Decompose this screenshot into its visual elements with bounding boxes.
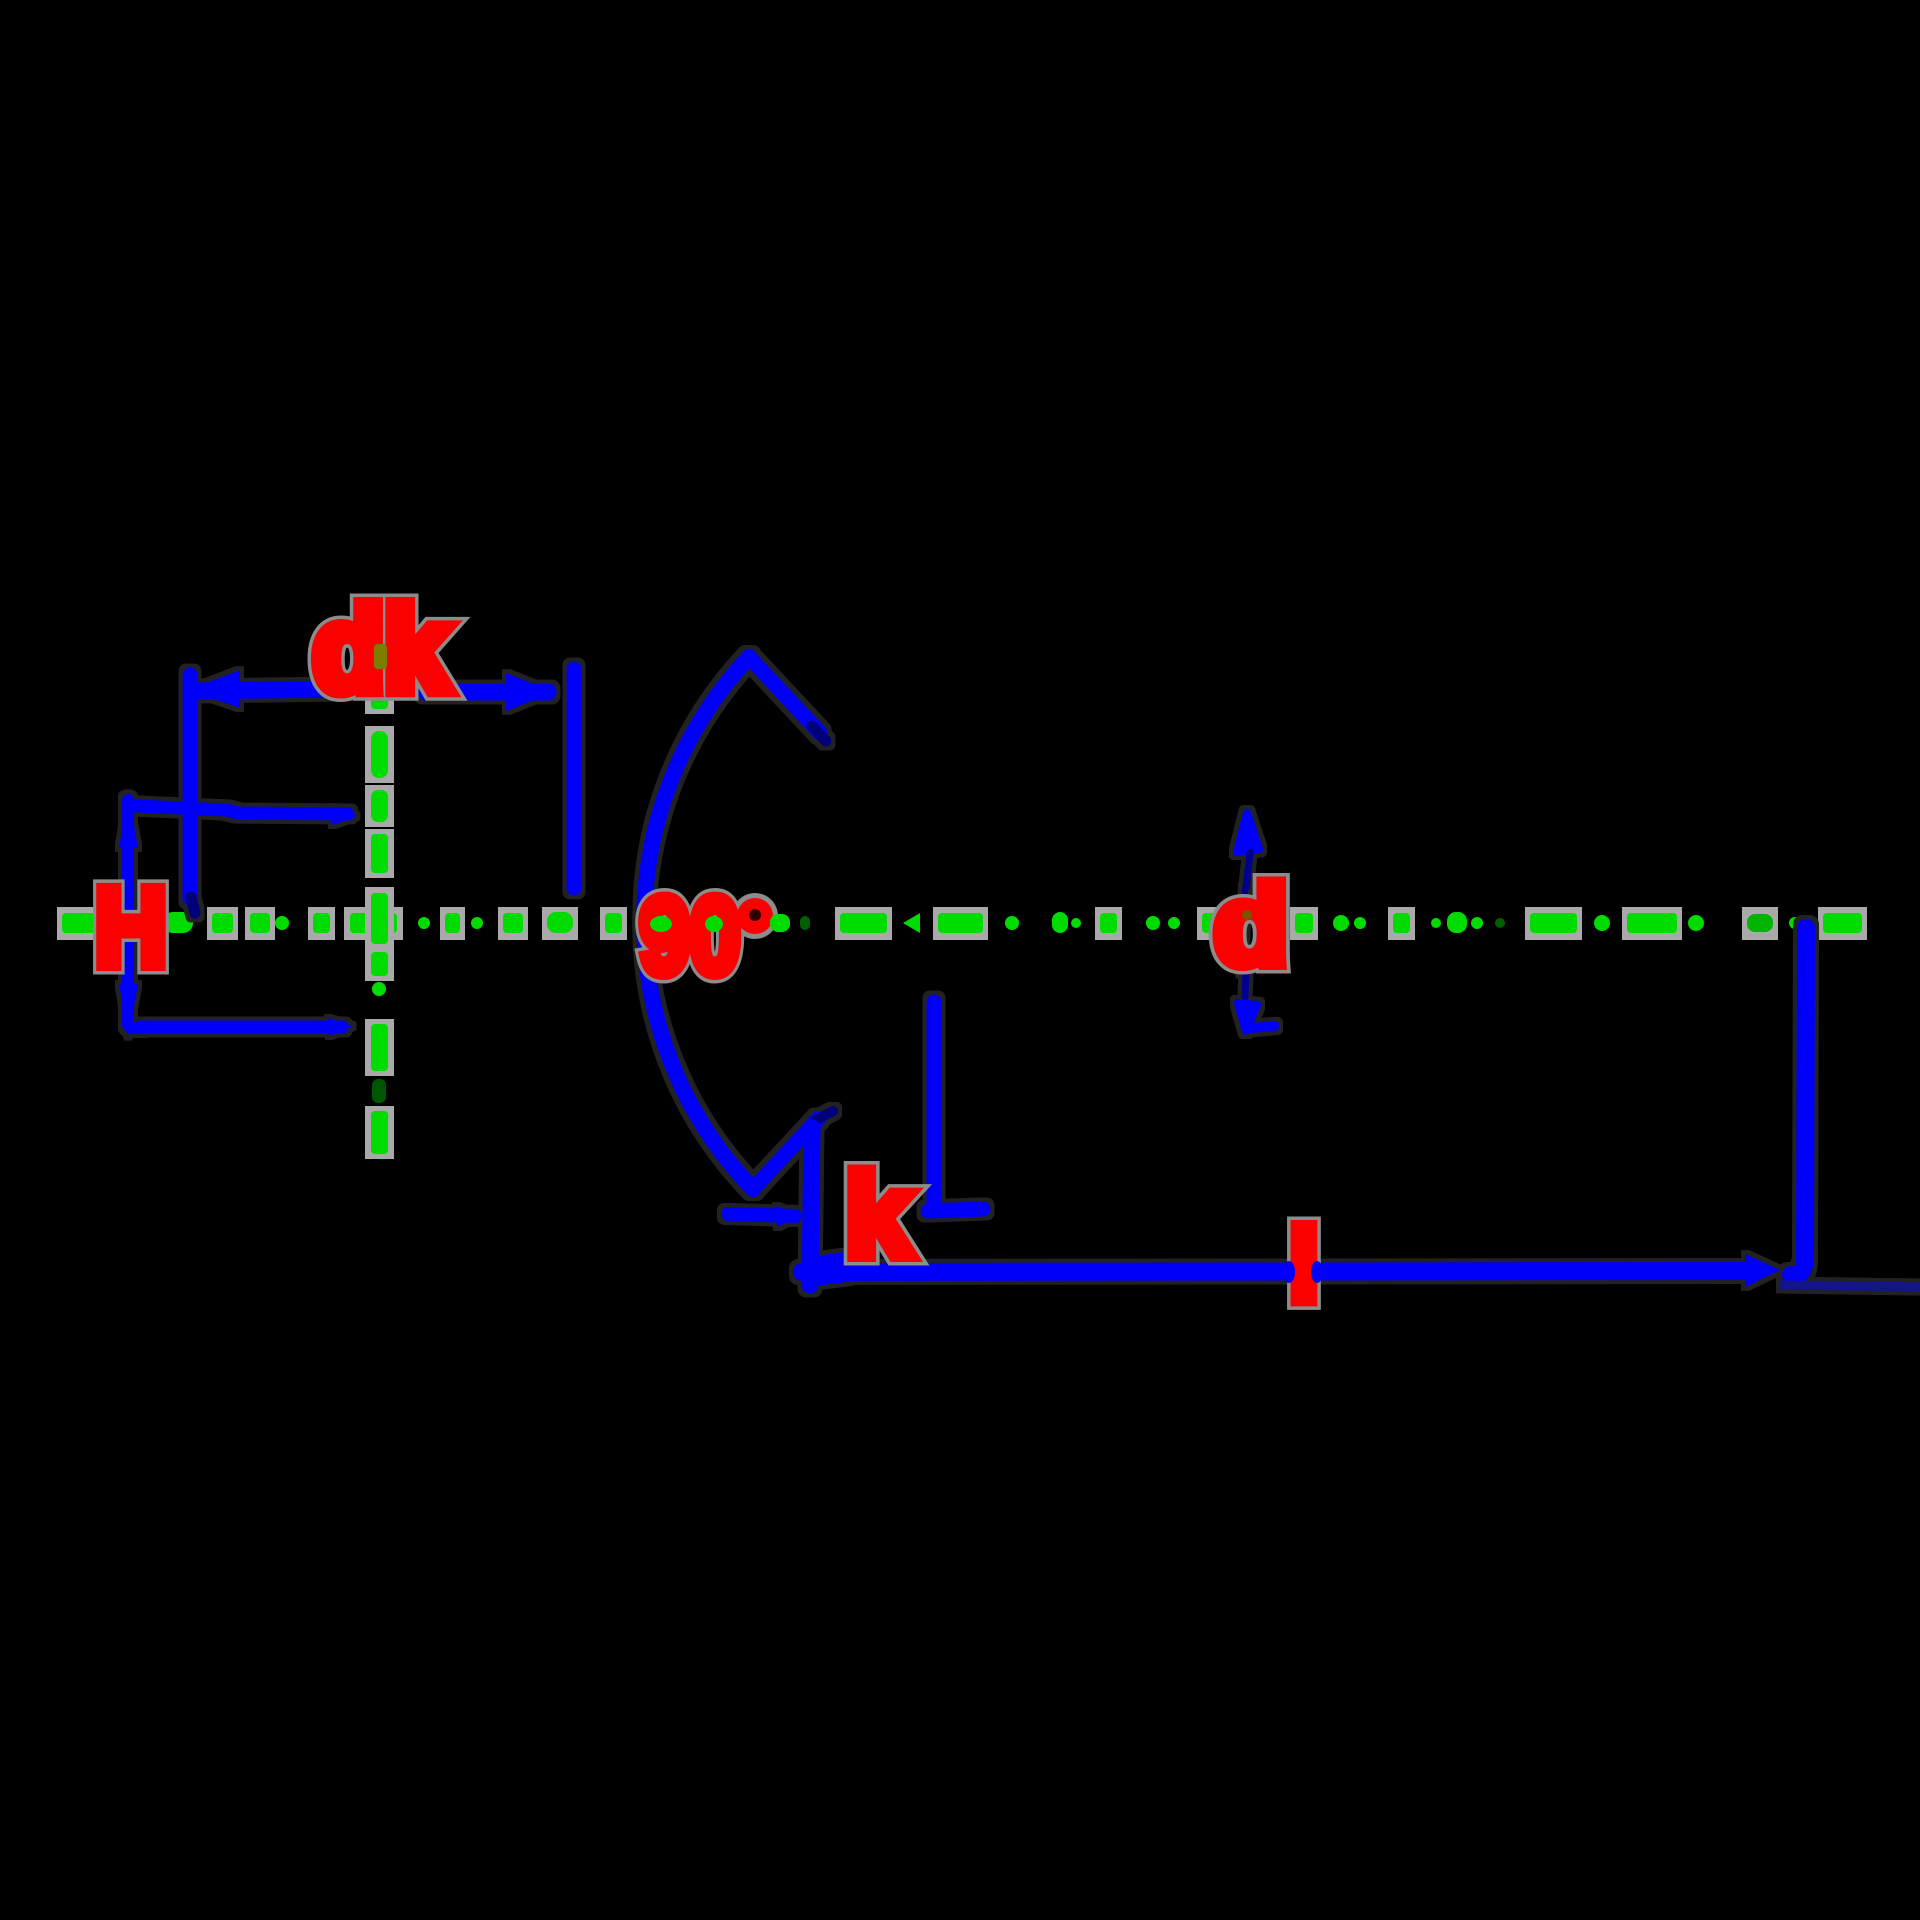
svg-text:k: k <box>845 1150 912 1282</box>
centerline dash overlapping 90 label right <box>770 914 790 932</box>
olive overlap dot inside dk label <box>374 644 387 669</box>
svg-text:H: H <box>95 866 167 989</box>
olive overlap dot inside d label <box>1242 910 1252 920</box>
centerline dot inside label 0 <box>705 916 723 932</box>
centerline vertical casing <box>365 684 394 1159</box>
blue strokes <box>119 657 1920 1287</box>
l label pinch left <box>1283 1261 1295 1283</box>
centerline vertical dashes <box>371 689 388 1154</box>
l label pinch right <box>1311 1261 1323 1283</box>
centerline horizontal casing <box>57 907 1867 940</box>
centerline horizontal dashes <box>62 912 1862 933</box>
svg-text:90: 90 <box>640 875 740 996</box>
svg-text:d: d <box>1214 863 1288 988</box>
blue stroke shadow layer <box>119 657 1920 1287</box>
centerline dot inside label 90 <box>650 916 672 932</box>
